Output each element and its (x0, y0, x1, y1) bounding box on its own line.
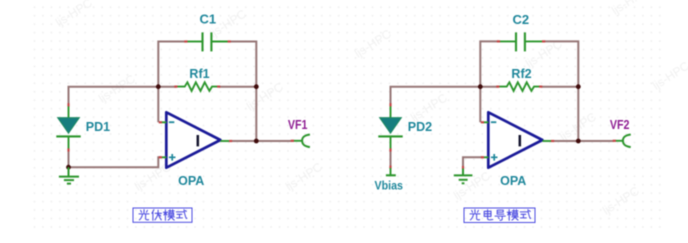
node: feedback right junction (254, 84, 259, 89)
wire: op-amp output to port (231, 140, 294, 142)
wire: PD2 bottom to Vbias (390, 150, 392, 167)
ground (PD1) (59, 167, 79, 183)
power port Vbias (386, 166, 396, 176)
svg-text:C1: C1 (199, 11, 216, 26)
glyph guang (470, 210, 480, 220)
svg-text:Vbias: Vbias (375, 179, 404, 193)
photodiode PD2 (378, 103, 402, 151)
glyph guang (139, 210, 149, 220)
svg-text:OPA: OPA (178, 174, 204, 188)
glyph fu (152, 210, 162, 221)
resistor Rf2 (496, 82, 542, 91)
resistor Rf1 (174, 82, 220, 91)
glyph shi (520, 210, 531, 219)
node: feedback left junction (156, 84, 161, 89)
glyph dao (495, 210, 505, 220)
glyph mo (507, 210, 518, 221)
node: PD1 ground junction (66, 165, 71, 170)
wire: C2 top feedback rail (480, 41, 578, 141)
svg-text:Rf1: Rf1 (189, 67, 209, 81)
pin: op-amp output lead (R) (542, 140, 554, 142)
svg-text:VF2: VF2 (610, 117, 630, 132)
pin: op-amp plus input lead (159, 156, 167, 158)
svg-text:C2: C2 (512, 12, 529, 27)
svg-text:OPA: OPA (500, 174, 526, 188)
node: output junction (R) (576, 139, 581, 144)
photodiode PD1 (56, 103, 80, 151)
wire: Rf2 horizontal + PD2 top link (391, 87, 579, 105)
wire: C1 top feedback rail (158, 42, 256, 142)
glyph dian (484, 210, 493, 220)
port VF2 (613, 135, 631, 148)
pin: op-amp plus input lead (R) (481, 156, 489, 158)
mode caption box 光电导模式 (464, 208, 535, 223)
svg-text:PD2: PD2 (408, 120, 432, 134)
node: output junction (254, 139, 259, 144)
mode caption box 光伏模式 (133, 208, 192, 222)
port VF1 (291, 135, 310, 148)
op-amp U1 triangle (166, 112, 220, 167)
ground (op-amp plus, right) (454, 166, 473, 183)
capacitor C2 (497, 32, 545, 51)
glyph shi (176, 210, 187, 219)
capacitor C1 (184, 32, 231, 51)
pin: op-amp minus input lead (R) (481, 121, 489, 123)
wire: Rf1 horizontal + PD1 top link (69, 87, 257, 105)
wire: op-amp output to port (553, 140, 614, 142)
pin: op-amp minus input lead (159, 121, 167, 123)
glyph mo (163, 210, 174, 221)
wire: op-amp plus to ground (463, 157, 483, 167)
svg-text:PD1: PD1 (86, 120, 110, 134)
svg-text:Rf2: Rf2 (511, 67, 531, 81)
node: feedback right junction (R) (576, 84, 581, 89)
op-amp U2 triangle (488, 112, 542, 167)
pin: op-amp output lead (220, 140, 232, 142)
svg-text:VF1: VF1 (288, 117, 308, 132)
wire: PD1 bottom to ground node and to op-amp plus (69, 150, 162, 167)
node: feedback left junction (R) (478, 84, 483, 89)
